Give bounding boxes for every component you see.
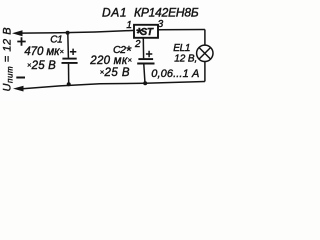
- svg-text:EL1: EL1: [173, 43, 190, 54]
- wire top rail left: [22, 30, 135, 33]
- svg-text:470 мк×: 470 мк×: [24, 46, 63, 58]
- wire top rail right: [158, 29, 205, 31]
- svg-text:2: 2: [134, 39, 141, 50]
- junction C1 top: [66, 31, 70, 35]
- svg-text:3: 3: [158, 19, 164, 30]
- wire bottom rail: [23, 82, 205, 89]
- svg-text:0,06...1 А: 0,06...1 А: [151, 68, 199, 80]
- svg-text:×25 В: ×25 В: [27, 60, 56, 72]
- lamp EL1: [197, 45, 213, 61]
- wire lamp bottom: [204, 61, 206, 81]
- capacitor C2: [137, 38, 154, 84]
- plus sign C2: [146, 51, 152, 57]
- capacitor C1: [62, 33, 78, 84]
- svg-text:220 мк×: 220 мк×: [89, 55, 132, 67]
- svg-text:×25 В: ×25 В: [100, 67, 130, 79]
- wire lamp top: [204, 30, 206, 46]
- arrow top-left (input +): [12, 30, 23, 36]
- svg-text:КР142ЕН8Б: КР142ЕН8Б: [134, 5, 199, 19]
- svg-text:C1: C1: [50, 35, 62, 46]
- junction C2 bottom: [143, 81, 147, 85]
- plus sign C1: [70, 49, 76, 55]
- junction C1 bottom: [67, 82, 71, 86]
- svg-text:DA1: DA1: [102, 5, 127, 19]
- minus sign input: [16, 77, 25, 79]
- regulator DA1 box: [134, 25, 158, 38]
- svg-text:1: 1: [126, 20, 132, 31]
- arrow bottom-left (input -): [13, 86, 24, 92]
- plus sign input: [17, 37, 25, 45]
- svg-text:12 В,: 12 В,: [174, 53, 197, 64]
